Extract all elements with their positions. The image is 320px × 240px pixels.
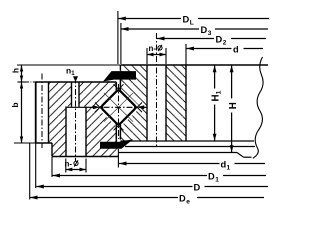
svg-text:b: b	[10, 102, 20, 107]
svg-text:1: 1	[227, 165, 231, 172]
svg-text:3: 3	[208, 30, 212, 37]
svg-text:n-: n-	[149, 44, 157, 53]
svg-text:L: L	[190, 20, 194, 27]
svg-text:D: D	[179, 194, 186, 204]
svg-text:D: D	[201, 25, 208, 35]
svg-text:1: 1	[215, 177, 219, 184]
svg-text:d: d	[233, 45, 239, 55]
svg-text:D: D	[194, 183, 201, 193]
svg-text:e: e	[186, 199, 190, 206]
svg-text:h: h	[11, 68, 21, 73]
svg-text:D: D	[216, 35, 223, 45]
svg-text:2: 2	[223, 40, 227, 47]
svg-text:D: D	[208, 172, 215, 182]
svg-text:n-: n-	[65, 159, 73, 168]
svg-text:D: D	[183, 15, 190, 25]
svg-text:H: H	[228, 102, 239, 109]
